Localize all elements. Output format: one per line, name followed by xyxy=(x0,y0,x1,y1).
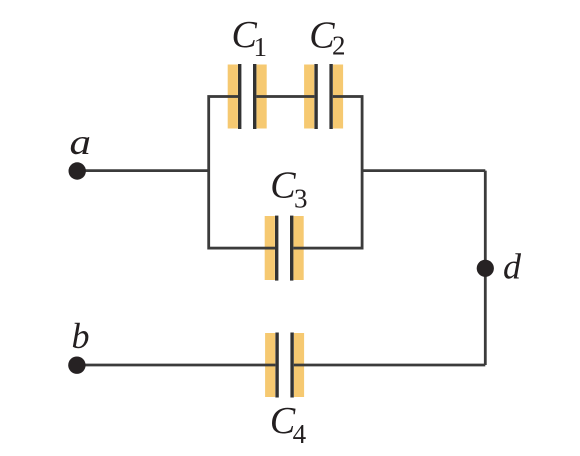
svg-text:d: d xyxy=(503,247,522,287)
node d dot xyxy=(477,260,494,277)
capacitor C3 gap and plates xyxy=(275,216,293,281)
wire: terminal b to right vertical (through C4) xyxy=(77,364,485,367)
wire: right vertical through node d xyxy=(484,171,487,365)
wire: parallel box loop (top branch C1 C2, bottom branch C3) xyxy=(209,97,362,249)
capacitor C3 dielectric bars xyxy=(265,216,304,280)
terminal a dot xyxy=(69,162,86,179)
svg-text:b: b xyxy=(72,316,90,356)
svg-text:1: 1 xyxy=(254,32,268,62)
capacitor C1 gap and plates xyxy=(238,64,256,129)
capacitor C1 dielectric bars xyxy=(228,65,267,129)
svg-text:C: C xyxy=(270,164,296,206)
svg-text:4: 4 xyxy=(293,419,307,449)
wire: terminal a to parallel box xyxy=(77,169,209,172)
capacitor C4 dielectric bars xyxy=(265,333,304,397)
capacitor C2 dielectric bars xyxy=(304,65,343,129)
svg-text:2: 2 xyxy=(332,31,346,61)
capacitor C4 gap and plates xyxy=(275,333,293,398)
terminal b dot xyxy=(68,357,85,374)
svg-text:3: 3 xyxy=(294,183,308,213)
capacitor C2 gap and plates xyxy=(314,64,332,129)
svg-text:a: a xyxy=(70,122,92,162)
wire: box right side to right vertical xyxy=(362,169,485,172)
